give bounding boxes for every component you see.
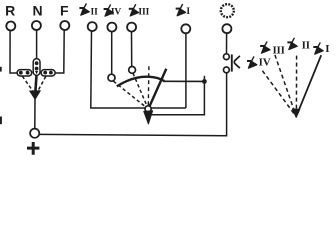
- selector pivot arrow: [30, 91, 41, 100]
- rotary contact B: [129, 67, 136, 74]
- wire terminal 7 down to pivot bus: [185, 33, 187, 108]
- svg-text:I: I: [186, 7, 190, 17]
- dashed position II ray: [147, 66, 150, 105]
- plus sign: [27, 142, 39, 155]
- flash I top: [176, 4, 186, 16]
- wire rotary pivot to terminal 7 horizontal: [151, 107, 186, 109]
- rotary pivot: [145, 106, 151, 112]
- connector contact lower: [224, 67, 230, 73]
- left contact (R): [17, 70, 32, 76]
- rotary pivot arrow: [144, 111, 153, 124]
- svg-text:R: R: [5, 2, 15, 18]
- headlamp terminal: [222, 24, 231, 33]
- terminal 5 (to flash IV): [107, 23, 116, 32]
- connector bar: [231, 54, 233, 71]
- svg-text:N: N: [32, 2, 42, 18]
- terminal 7 (to flash I): [181, 24, 190, 33]
- fan pivot arrow: [292, 109, 299, 117]
- flash II top: [79, 3, 89, 15]
- right contact (F): [41, 70, 55, 76]
- fan solid ray I: [297, 55, 321, 115]
- fan dashed ray IV: [262, 71, 294, 115]
- bottom bus wire: [39, 73, 226, 136]
- svg-text:II: II: [302, 40, 310, 52]
- svg-text:IV: IV: [259, 56, 271, 68]
- wire terminal 5 to contact A: [111, 32, 113, 75]
- connector contact upper: [224, 54, 230, 60]
- svg-text:I: I: [325, 43, 329, 55]
- junction stub: [203, 76, 205, 79]
- terminal R: [6, 22, 15, 31]
- dashed linkage left contact to selector pivot: [22, 76, 33, 92]
- wire terminal 6 to contact B: [131, 32, 133, 67]
- dashed linkage right contact to selector pivot: [37, 76, 46, 92]
- wire terminal 4 to rotary pivot: [91, 31, 145, 108]
- wire R to left contact: [10, 30, 17, 73]
- center contact (N): [33, 59, 40, 76]
- svg-text:IV: IV: [111, 8, 122, 18]
- fan flash III: [260, 41, 270, 53]
- dashed linkage contact A to rotary pivot: [113, 81, 145, 107]
- fan dashed ray III: [275, 55, 296, 114]
- svg-text:II: II: [90, 8, 98, 18]
- fan flash I: [313, 42, 323, 54]
- flash IV right (shared connector / fan): [247, 56, 257, 68]
- terminal 6 (to flash III): [127, 23, 136, 32]
- wire selector pivot to battery terminal: [34, 99, 36, 129]
- selector wiper at N (thick): [35, 75, 36, 91]
- fan flash II: [287, 38, 297, 50]
- wire N to center contact: [36, 30, 38, 59]
- junction dot: [202, 79, 207, 84]
- wire track to junction: [163, 80, 204, 82]
- headlamp symbol: [221, 4, 234, 17]
- wire F to right contact: [55, 30, 64, 73]
- rotary wiper at I (thick): [150, 69, 167, 106]
- svg-text:F: F: [60, 2, 69, 18]
- flash IV top: [104, 4, 114, 16]
- svg-text:III: III: [272, 44, 284, 56]
- wire junction down and left to pivot: [150, 81, 205, 114]
- flash III top: [129, 4, 139, 16]
- connector fork: [234, 56, 240, 68]
- terminal 4 (to flash II): [88, 22, 97, 31]
- battery terminal: [30, 129, 39, 138]
- terminal N: [32, 21, 41, 30]
- terminal F: [60, 21, 69, 30]
- rotary contact A: [108, 74, 115, 81]
- rotary track arc: [117, 77, 164, 87]
- svg-text:III: III: [138, 7, 149, 17]
- wire headlamp terminal to connector: [226, 33, 228, 54]
- scan mark lower left edge: [0, 117, 2, 125]
- fan dashed ray II: [295, 56, 297, 114]
- dashed linkage contact B to rotary pivot: [133, 73, 147, 106]
- scan mark upper left edge: [0, 67, 2, 72]
